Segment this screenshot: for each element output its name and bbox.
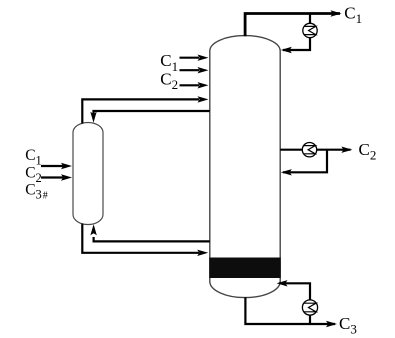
svg-text:C1: C1 (344, 4, 362, 27)
stripper top return arrowhead (90, 112, 96, 123)
feed arrow 1 into column (180, 57, 200, 59)
main distillation column shell (210, 36, 280, 298)
bottoms outlet line (245, 297, 335, 324)
column bottom black band (209, 258, 280, 279)
feed arrow 2 into column (180, 69, 200, 71)
C3 product arrowhead (326, 321, 337, 327)
svg-text:C3: C3 (339, 314, 357, 337)
C1 product arrowhead (331, 10, 342, 16)
stripper bottom up arrowhead (90, 224, 96, 235)
C2 return branch line (283, 150, 327, 173)
column to stripper top return line (94, 111, 210, 115)
stripper bottoms to column line (82, 224, 199, 253)
left feed arrow 1 into stripper (41, 165, 63, 167)
condenser return line (283, 37, 310, 50)
reboiler return arrowhead (277, 280, 288, 286)
side stripper shell (73, 123, 103, 225)
reboiler E3 (302, 300, 317, 315)
overhead vapor line (245, 14, 340, 37)
condenser drop line (309, 14, 311, 25)
column to stripper bottom line (94, 237, 210, 241)
stripper bottoms arrowhead (197, 250, 208, 256)
C2 side draw line (280, 149, 350, 151)
side cooler E2 (302, 143, 316, 157)
reboiler riser line (279, 283, 310, 324)
left feed arrow 2 into stripper (41, 176, 63, 178)
svg-text:C2: C2 (359, 140, 377, 163)
C2 product arrowhead (341, 147, 352, 153)
stripper overhead to column line (82, 99, 199, 123)
stripper overhead arrowhead (198, 96, 209, 102)
C2 return arrowhead (281, 169, 292, 175)
condenser return arrowhead (281, 47, 292, 53)
condenser E1 (303, 23, 317, 37)
feed arrow 3 into column (180, 84, 200, 86)
